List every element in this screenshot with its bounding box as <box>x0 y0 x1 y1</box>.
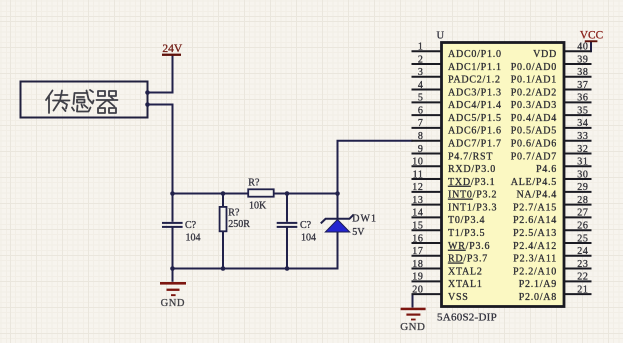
svg-text:DW1: DW1 <box>352 214 377 225</box>
svg-text:GND: GND <box>400 321 425 333</box>
svg-text:P0.7/AD7: P0.7/AD7 <box>511 151 557 162</box>
svg-text:19: 19 <box>412 272 423 283</box>
svg-text:WR/P3.6: WR/P3.6 <box>448 241 490 252</box>
svg-text:P0.5/AD5: P0.5/AD5 <box>511 126 557 137</box>
svg-text:U: U <box>437 31 445 42</box>
svg-text:40: 40 <box>577 42 588 53</box>
svg-text:10K: 10K <box>249 201 267 212</box>
svg-text:5V: 5V <box>352 227 365 238</box>
svg-text:5A60S2-DIP: 5A60S2-DIP <box>437 312 497 324</box>
svg-text:C?: C? <box>185 220 197 231</box>
svg-text:T0/P3.4: T0/P3.4 <box>448 215 485 226</box>
svg-text:1: 1 <box>418 42 424 53</box>
svg-text:30: 30 <box>577 169 588 180</box>
svg-text:ADC7/P1.7: ADC7/P1.7 <box>448 138 502 149</box>
svg-text:34: 34 <box>577 118 588 129</box>
svg-text:8: 8 <box>418 131 424 142</box>
svg-text:13: 13 <box>412 195 423 206</box>
svg-text:9: 9 <box>418 144 424 155</box>
svg-text:R?: R? <box>248 178 260 189</box>
svg-text:ADC3/P1.3: ADC3/P1.3 <box>448 87 502 98</box>
svg-text:P0.6/AD6: P0.6/AD6 <box>511 138 557 149</box>
svg-text:P2.6/A14: P2.6/A14 <box>513 215 557 226</box>
svg-text:P2.4/A12: P2.4/A12 <box>513 241 557 252</box>
svg-text:11: 11 <box>413 169 424 180</box>
svg-text:12: 12 <box>412 182 423 193</box>
svg-text:P0.4/AD4: P0.4/AD4 <box>511 113 557 124</box>
svg-text:2: 2 <box>418 54 424 65</box>
svg-text:104: 104 <box>186 232 201 243</box>
svg-text:INT0/P3.2: INT0/P3.2 <box>448 190 497 201</box>
svg-text:VCC: VCC <box>580 29 603 41</box>
svg-text:250R: 250R <box>228 219 250 230</box>
svg-text:P0.2/AD2: P0.2/AD2 <box>511 87 557 98</box>
svg-text:P4.6: P4.6 <box>536 164 557 175</box>
svg-text:6: 6 <box>418 105 424 116</box>
svg-text:ADC1/P1.1: ADC1/P1.1 <box>448 62 502 73</box>
svg-text:16: 16 <box>412 233 423 244</box>
svg-text:38: 38 <box>577 67 588 78</box>
svg-text:P2.2/A10: P2.2/A10 <box>513 266 557 277</box>
svg-text:5: 5 <box>418 93 424 104</box>
svg-text:ADC6/P1.6: ADC6/P1.6 <box>448 126 502 137</box>
svg-text:XTAL2: XTAL2 <box>448 266 483 277</box>
svg-text:P0.0/AD0: P0.0/AD0 <box>511 62 557 73</box>
svg-text:GND: GND <box>161 298 185 309</box>
svg-text:P2.1/A9: P2.1/A9 <box>519 279 557 290</box>
svg-text:TXD/P3.1: TXD/P3.1 <box>448 177 495 188</box>
svg-text:P0.1/AD1: P0.1/AD1 <box>511 75 557 86</box>
svg-text:3: 3 <box>418 67 424 78</box>
svg-text:33: 33 <box>577 131 588 142</box>
svg-text:26: 26 <box>577 220 588 231</box>
svg-text:RXD/P3.0: RXD/P3.0 <box>448 164 496 175</box>
svg-text:32: 32 <box>577 144 588 155</box>
svg-text:14: 14 <box>412 208 423 219</box>
svg-text:10: 10 <box>412 157 423 168</box>
svg-text:ADC4/P1.4: ADC4/P1.4 <box>448 100 502 111</box>
svg-text:C?: C? <box>300 220 312 231</box>
svg-text:15: 15 <box>412 220 423 231</box>
svg-text:P0.3/AD3: P0.3/AD3 <box>511 100 557 111</box>
svg-text:RD/P3.7: RD/P3.7 <box>448 254 488 265</box>
svg-text:VSS: VSS <box>448 292 469 303</box>
svg-text:28: 28 <box>577 195 588 206</box>
svg-text:P2.0/A8: P2.0/A8 <box>519 292 557 303</box>
svg-text:31: 31 <box>577 157 588 168</box>
svg-text:VDD: VDD <box>533 49 557 60</box>
svg-text:T1/P3.5: T1/P3.5 <box>448 228 485 239</box>
svg-text:22: 22 <box>577 272 588 283</box>
svg-text:P4.7/RST: P4.7/RST <box>448 151 493 162</box>
svg-text:17: 17 <box>412 246 423 257</box>
svg-text:PADC2/1.2: PADC2/1.2 <box>448 75 501 86</box>
svg-text:P2.5/A13: P2.5/A13 <box>513 228 557 239</box>
svg-text:21: 21 <box>577 284 588 295</box>
svg-text:25: 25 <box>577 233 588 244</box>
svg-text:104: 104 <box>301 232 316 243</box>
svg-text:XTAL1: XTAL1 <box>448 279 483 290</box>
svg-text:P2.3/A11: P2.3/A11 <box>513 254 557 265</box>
svg-text:NA/P4.4: NA/P4.4 <box>516 190 557 201</box>
svg-text:24V: 24V <box>162 43 183 55</box>
svg-text:R?: R? <box>228 207 240 218</box>
svg-text:INT1/P3.3: INT1/P3.3 <box>448 202 497 213</box>
svg-text:20: 20 <box>412 284 423 295</box>
svg-text:39: 39 <box>577 54 588 65</box>
svg-text:ALE/P4.5: ALE/P4.5 <box>511 177 557 188</box>
svg-text:7: 7 <box>418 118 424 129</box>
svg-text:24: 24 <box>577 246 588 257</box>
svg-text:P2.7/A15: P2.7/A15 <box>513 202 557 213</box>
svg-text:ADC0/P1.0: ADC0/P1.0 <box>448 49 502 60</box>
svg-text:35: 35 <box>577 105 588 116</box>
svg-text:23: 23 <box>577 259 588 270</box>
svg-text:4: 4 <box>418 80 424 91</box>
svg-text:18: 18 <box>412 259 423 270</box>
svg-text:29: 29 <box>577 182 588 193</box>
svg-text:37: 37 <box>577 80 588 91</box>
svg-text:36: 36 <box>577 93 588 104</box>
svg-text:ADC5/P1.5: ADC5/P1.5 <box>448 113 502 124</box>
svg-text:27: 27 <box>577 208 588 219</box>
